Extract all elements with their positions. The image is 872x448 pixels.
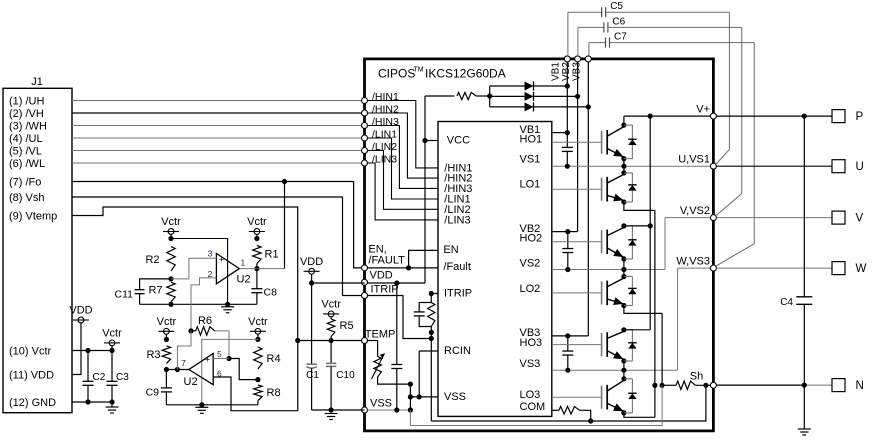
terminal P xyxy=(832,110,845,123)
node rail A xyxy=(168,236,173,241)
ground U2b xyxy=(195,407,208,413)
svg-text:Vctr: Vctr xyxy=(161,216,181,228)
module CIPOS IKCS12G60DA outline xyxy=(365,59,714,431)
diode antiparallel of Q3 HO2 xyxy=(624,226,633,259)
svg-text:W: W xyxy=(856,263,867,275)
wire VDD bypass cap top lead xyxy=(396,283,398,365)
wire U2b output xyxy=(166,369,189,371)
node gnd rail tap U2b xyxy=(199,402,204,407)
capacitor bootstrap C3 internal xyxy=(562,351,573,355)
transistor Q5 HO3 (IGBT) xyxy=(602,330,624,361)
node shunt kelvin xyxy=(703,383,708,388)
wire C6 right drop xyxy=(741,27,743,193)
svg-text:U2: U2 xyxy=(184,376,198,388)
wire C6 diagonal xyxy=(716,194,742,216)
node Q6 LO3 collector xyxy=(621,376,626,381)
svg-text:Vctr: Vctr xyxy=(321,298,341,310)
wire J1 GND row xyxy=(72,401,112,403)
svg-text:LO3: LO3 xyxy=(520,389,541,401)
wire U2a supply drop xyxy=(171,239,228,305)
node EN branch xyxy=(406,265,411,270)
svg-text:HO1: HO1 xyxy=(520,134,543,146)
wire ground rail U2b xyxy=(166,404,258,406)
svg-text:/HIN2: /HIN2 xyxy=(372,104,399,116)
svg-text:R8: R8 xyxy=(267,387,281,399)
svg-text:VDD: VDD xyxy=(69,305,92,317)
wire Q5 emitter to VS3 row xyxy=(623,361,625,370)
wire diode D2 cathode to VB2 line xyxy=(534,95,578,97)
svg-text:(5) /VL: (5) /VL xyxy=(9,145,42,157)
wire HO3 to gate xyxy=(552,344,602,346)
transistor Q4 LO2 (IGBT) xyxy=(602,277,624,306)
node R6 left xyxy=(188,328,193,333)
svg-text:(2) /VH: (2) /VH xyxy=(9,108,44,120)
node /Fo branch xyxy=(282,179,287,184)
module pin /LIN3 xyxy=(362,160,368,166)
node VB3 diode junction xyxy=(586,104,591,109)
wire EN branch xyxy=(409,250,438,268)
wire pin5 row xyxy=(213,358,229,360)
wire J1 Vctr row xyxy=(72,350,112,352)
gate-driver IC box xyxy=(438,122,552,417)
wire J1 VDD xyxy=(72,323,81,375)
svg-text:/Fault: /Fault xyxy=(443,261,471,273)
wire C7 right drop xyxy=(753,43,755,244)
wire HO1 to gate xyxy=(552,141,602,143)
svg-text:(6) /WL: (6) /WL xyxy=(9,158,45,170)
capacitor C11 (parallel R7) xyxy=(140,279,171,290)
wire /WL J1 to module xyxy=(72,162,362,164)
wire /HIN2 to IC xyxy=(368,113,439,178)
svg-text:R1: R1 xyxy=(265,249,279,261)
wire VCC down to VDD xyxy=(424,141,426,284)
wire VSS tie vertical xyxy=(409,384,411,410)
svg-text:J1: J1 xyxy=(31,76,43,88)
resistor R4 xyxy=(254,347,262,369)
node R2/R7 xyxy=(168,276,173,281)
wire diode D3 cathode to VB3 line xyxy=(534,106,589,108)
svg-text:C10: C10 xyxy=(336,370,355,381)
node ITRIP RC bottom tie xyxy=(429,336,434,341)
wire Q1 emitter to VS1 row xyxy=(623,159,625,167)
module pin /HIN2 xyxy=(362,110,368,116)
wire to ground xyxy=(111,402,113,407)
wire HO2 to gate xyxy=(552,241,602,243)
wire bootstrap cap C1 bottom lead xyxy=(566,151,568,166)
svg-text:(3) /WH: (3) /WH xyxy=(9,120,47,132)
svg-text:/FAULT: /FAULT xyxy=(368,255,405,267)
wire R8 bottom xyxy=(257,401,259,405)
svg-text:HO3: HO3 xyxy=(520,337,543,349)
wire IC VSS row xyxy=(410,396,438,398)
node R4/R8 xyxy=(255,377,260,382)
node Q6 LO3 emitter xyxy=(621,410,626,415)
wire ITRIP cap top xyxy=(419,303,431,312)
wire VS3 to Q6 collector xyxy=(623,370,625,379)
svg-text:N: N xyxy=(856,380,864,392)
resistor bootstrap feed xyxy=(457,92,476,99)
node pin5 xyxy=(226,356,231,361)
module pin VB1 top xyxy=(564,56,570,62)
wire VS3 row xyxy=(552,369,678,371)
svg-text:(1) /UH: (1) /UH xyxy=(9,95,45,107)
wire C5 right drop xyxy=(728,12,730,149)
node VDD ext xyxy=(309,280,314,285)
op-amp U2b triangle (points left) xyxy=(189,354,213,385)
capacitor C1 xyxy=(311,283,313,364)
wire /VL J1 to module xyxy=(72,150,362,152)
wire VB1 column xyxy=(566,62,568,133)
wire bootstrap cap C2 bottom lead xyxy=(567,253,569,270)
capacitor C5 xyxy=(568,11,602,13)
svg-text:HO2: HO2 xyxy=(520,233,543,245)
svg-text:C9: C9 xyxy=(146,387,160,399)
wire R6 right to pin5 xyxy=(215,331,229,359)
wire pin2 to R6 node xyxy=(191,278,216,331)
svg-text:(8) Vsh: (8) Vsh xyxy=(9,192,44,204)
node VCC junction xyxy=(422,138,427,143)
wire Vctr stem xyxy=(111,346,113,351)
node Q3 HO2 collector xyxy=(621,223,626,228)
wire shunt to module pin xyxy=(695,384,713,386)
node N bus xyxy=(802,383,807,388)
wire Q3 collector to V+ bus xyxy=(624,225,650,227)
svg-text:VB2: VB2 xyxy=(561,62,572,81)
svg-text:Vctr: Vctr xyxy=(157,316,177,328)
wire V+ rail xyxy=(624,115,714,117)
wire /UH J1 to module xyxy=(72,100,362,102)
svg-text:/LIN1: /LIN1 xyxy=(372,129,397,141)
supply Vctr symbol U2a left xyxy=(161,216,181,234)
wire pin5 to R4/R8 node xyxy=(229,359,258,380)
node V+ bus phase2 xyxy=(648,223,653,228)
node C3 top xyxy=(109,348,114,353)
wire bootstrap cap C2 top lead xyxy=(567,232,569,248)
wire gnd row to VSS pin xyxy=(331,409,364,411)
svg-text:/LIN2: /LIN2 xyxy=(372,141,397,153)
ground U2a xyxy=(221,307,234,313)
supply Vctr symbol (R5) xyxy=(321,298,341,316)
node U,VS1 midpoint xyxy=(621,164,626,169)
wire Vsh to ITRIP xyxy=(72,197,362,296)
svg-text:EN: EN xyxy=(443,244,458,256)
capacitor C10 xyxy=(330,341,332,364)
node Q2 LO1 emitter xyxy=(621,199,626,204)
module pin EN,/FAULT xyxy=(362,265,368,271)
node shunt left A xyxy=(652,383,657,388)
wire /HIN1 to IC xyxy=(368,101,439,168)
module pin /HIN1 xyxy=(362,98,368,104)
svg-text:P: P xyxy=(856,111,864,123)
node R7 bottom xyxy=(168,302,173,307)
module pin W,VS3 xyxy=(710,265,716,271)
node rail D xyxy=(255,337,260,342)
node thermistor tie xyxy=(408,382,413,387)
wire VCC pin xyxy=(425,140,438,142)
wire LO1 to gate xyxy=(552,188,602,190)
svg-text:7: 7 xyxy=(181,358,186,368)
svg-text:U,VS1: U,VS1 xyxy=(678,153,710,165)
node V+ bus top xyxy=(648,114,653,119)
wire VB2 IC pin xyxy=(552,231,568,233)
svg-text:/HIN1: /HIN1 xyxy=(372,91,399,103)
node diode bus xyxy=(487,93,492,98)
svg-text:Vctr: Vctr xyxy=(247,216,267,228)
resistor R3 xyxy=(162,346,170,364)
svg-text:TEMP: TEMP xyxy=(365,328,396,340)
wire Vctr stem xyxy=(170,234,172,238)
supply Vctr symbol U2b left xyxy=(157,316,177,334)
svg-text:VDD: VDD xyxy=(300,256,323,268)
wire V,VS2 row xyxy=(665,217,713,219)
wire LO2 to gate xyxy=(552,292,602,294)
wire resistor to diode bus xyxy=(476,95,490,97)
svg-text:C7: C7 xyxy=(614,32,627,43)
wire diode bus vertical xyxy=(489,86,491,107)
svg-text:W,VS3: W,VS3 xyxy=(676,255,710,267)
svg-text:VB1: VB1 xyxy=(550,62,561,81)
wire /LIN2 to IC xyxy=(368,151,439,210)
svg-text:C8: C8 xyxy=(264,287,278,299)
module pin ITRIP xyxy=(362,293,368,299)
svg-text:VSS: VSS xyxy=(444,391,466,403)
module pin TEMP xyxy=(362,338,368,344)
resistor R8 xyxy=(254,385,262,401)
diode D2 bootstrap xyxy=(525,92,534,101)
wire Vtemp xyxy=(72,207,298,341)
wire VB2 column xyxy=(577,62,579,232)
wire VS2 row xyxy=(552,269,665,271)
terminal U xyxy=(832,160,845,173)
wire TEMP to thermistor xyxy=(368,341,378,357)
wire C5 diagonal xyxy=(716,149,729,164)
wire /VH J1 to module xyxy=(72,112,362,114)
thermistor internal xyxy=(374,357,382,377)
supply Vctr symbol J1 xyxy=(102,327,122,345)
node VS3 cap junction xyxy=(565,368,570,373)
svg-text:VB3: VB3 xyxy=(571,62,582,81)
wire W,VS3 to W xyxy=(716,267,832,269)
wire pin3 to R2/R7 node xyxy=(171,258,216,279)
svg-text:COM: COM xyxy=(520,401,546,413)
node R3/C9/out xyxy=(164,367,169,372)
wire VS3 sense riser xyxy=(677,268,679,370)
wire Vctr stem xyxy=(165,334,167,339)
svg-text:C4: C4 xyxy=(780,297,793,308)
svg-text:VCC: VCC xyxy=(447,134,470,146)
diode antiparallel of Q4 LO2 xyxy=(624,277,633,306)
capacitor C3 xyxy=(111,351,113,382)
transistor Q3 HO2 (IGBT) xyxy=(602,226,624,259)
wire VS1 to Q2 collector xyxy=(623,166,625,173)
resistor COM internal xyxy=(559,407,580,415)
ground C1/C10 xyxy=(325,414,338,420)
node output/R1/C8 xyxy=(254,266,259,271)
wire to shunt xyxy=(662,384,676,386)
node C10 ground xyxy=(329,407,334,412)
node RCIN VSS tie xyxy=(417,394,422,399)
wire ITRIP ext to RC bottom xyxy=(368,296,432,339)
node VS1 cap junction xyxy=(565,164,570,169)
wire Q3 emitter to VS2 row xyxy=(623,259,625,270)
module pin U,VS1 xyxy=(710,163,716,169)
wire /WH J1 to module xyxy=(72,125,362,127)
wire VS2 to Q4 collector xyxy=(623,270,625,277)
svg-text:+: + xyxy=(205,354,210,364)
wire bootstrap cap C3 top lead xyxy=(567,336,569,351)
wire U-phase emitter bus xyxy=(654,210,656,417)
wire C7 to VB pin xyxy=(588,43,590,56)
wire VDD row xyxy=(368,282,426,284)
wire VB3 IC pin xyxy=(552,335,568,337)
wire bootstrap cap C1 top lead xyxy=(566,133,568,147)
wire C7 diagonal xyxy=(716,244,754,266)
wire VDD stem xyxy=(311,274,313,283)
wire V,VS2 to V xyxy=(716,217,832,219)
svg-text:VS2: VS2 xyxy=(520,258,541,270)
wire W,VS3 row xyxy=(678,267,714,269)
node Q5 HO3 collector xyxy=(621,327,626,332)
node VB1 diode junction xyxy=(565,83,570,88)
svg-text:1: 1 xyxy=(241,257,246,267)
capacitor bootstrap C1 internal xyxy=(562,147,573,151)
diode antiparallel of Q1 HO1 xyxy=(624,125,633,159)
module pin V+ xyxy=(710,113,716,119)
wire RC bottom to kelvin rail xyxy=(430,327,432,422)
capacitor ITRIP filter internal xyxy=(414,312,425,316)
node Q1 HO1 collector xyxy=(621,123,626,128)
node Q5 HO3 emitter xyxy=(621,358,626,363)
supply VDD symbol xyxy=(300,256,323,274)
resistor ITRIP filter internal xyxy=(428,303,435,327)
svg-text:(11) VDD: (11) VDD xyxy=(9,369,54,381)
wire /LIN3 to IC xyxy=(368,163,439,220)
wire R5 to TEMP xyxy=(330,337,332,341)
wire VB3 column xyxy=(587,62,589,336)
node C3 bottom xyxy=(109,399,114,404)
svg-text:U2: U2 xyxy=(237,273,251,285)
resistor Sh shunt xyxy=(676,381,695,389)
diode D3 bootstrap xyxy=(525,102,534,111)
terminal N xyxy=(832,379,845,392)
wire VDD ext row xyxy=(312,282,365,284)
svg-text:(9) Vtemp: (9) Vtemp xyxy=(9,210,57,222)
node Q1 HO1 emitter xyxy=(621,156,626,161)
module pin VDD xyxy=(362,279,368,285)
svg-text:V,VS2: V,VS2 xyxy=(680,205,710,217)
svg-text:R7: R7 xyxy=(148,285,162,297)
node VSS B xyxy=(408,407,413,412)
wire IC ITRIP pin xyxy=(431,293,438,295)
svg-text:VDD: VDD xyxy=(370,270,393,282)
ground N bus xyxy=(803,385,805,429)
node VDD bypass xyxy=(394,280,399,285)
svg-text:/LIN3: /LIN3 xyxy=(444,215,470,227)
supply VDD symbol J1 xyxy=(69,305,92,323)
resistor R6 xyxy=(196,327,215,335)
module pin VB3 top xyxy=(585,56,591,62)
wire U2b supply drop xyxy=(202,339,258,404)
wire /Fo branch to comparator output xyxy=(284,182,286,269)
node Q3 HO2 emitter xyxy=(621,256,626,261)
node VSS A xyxy=(408,394,413,399)
node Q4 LO2 collector xyxy=(621,274,626,279)
wire RCIN pin xyxy=(419,350,438,352)
node V,VS2 midpoint xyxy=(621,267,626,272)
svg-text:(4) /UL: (4) /UL xyxy=(9,133,43,145)
wire VS1 row (U,VS1) xyxy=(552,165,714,167)
wire shunt-left to VSS gray return xyxy=(410,385,662,425)
svg-text:ITRIP: ITRIP xyxy=(444,287,472,299)
node COM junction xyxy=(588,418,593,423)
module pin V,VS2 xyxy=(710,215,716,221)
op-amp U2a triangle xyxy=(216,253,239,283)
supply Vctr symbol U2b right xyxy=(248,316,268,334)
wire VS2 sense riser xyxy=(664,218,666,270)
node W,VS3 midpoint xyxy=(621,368,626,373)
svg-text:V+: V+ xyxy=(696,103,710,115)
wire Q5 collector to V+ bus xyxy=(624,329,650,331)
capacitor C9 xyxy=(165,370,167,388)
svg-text:LO2: LO2 xyxy=(520,283,541,295)
wire /LIN1 to IC xyxy=(368,138,439,199)
resistor R1 xyxy=(253,246,261,264)
thermistor arrow xyxy=(372,354,385,380)
svg-text:(10) Vctr: (10) Vctr xyxy=(9,345,52,357)
wire /UL J1 to module xyxy=(72,137,362,139)
svg-text:TM: TM xyxy=(414,66,424,73)
terminal V xyxy=(832,211,845,224)
wire /Fo xyxy=(72,182,362,268)
wire VB3 to IC row xyxy=(568,335,589,337)
node VB2 xyxy=(565,229,570,234)
svg-text:C11: C11 xyxy=(115,289,134,301)
wire VCC up to bootstrap feed xyxy=(424,96,426,141)
capacitor C7 xyxy=(589,42,606,44)
wire C5 to VB pin xyxy=(567,12,569,56)
node TEMP R5/C10 xyxy=(329,338,334,343)
svg-text:C1: C1 xyxy=(306,370,319,381)
ground J1 xyxy=(106,407,119,413)
module pin VB2 top xyxy=(575,56,581,62)
wire ground rail U2a xyxy=(171,303,257,305)
capacitor C2 xyxy=(87,351,89,382)
wire kelvin VSS return xyxy=(431,385,706,421)
node VSS bypass tie xyxy=(394,407,399,412)
wire LO3 to gate xyxy=(552,396,602,398)
resistor R5 xyxy=(327,319,335,337)
supply Vctr symbol U2a right xyxy=(247,216,267,234)
node shunt left B xyxy=(660,383,665,388)
capacitor C6 xyxy=(578,26,604,28)
wire to bootstrap diode D2 xyxy=(490,95,525,97)
transistor Q2 LO1 (IGBT) xyxy=(602,173,624,202)
svg-text:VS3: VS3 xyxy=(520,358,541,370)
wire VB1 IC pin xyxy=(552,132,568,134)
svg-text:C3: C3 xyxy=(116,372,129,383)
wire V+ to P xyxy=(716,115,832,117)
svg-text:/LIN3: /LIN3 xyxy=(372,154,397,166)
capacitor C4 xyxy=(803,116,805,297)
svg-text:C2: C2 xyxy=(93,372,106,383)
diode D1 bootstrap xyxy=(525,82,534,91)
wire to bootstrap diode D3 xyxy=(490,106,525,108)
wire TEMP ext row xyxy=(298,340,362,342)
svg-text:3: 3 xyxy=(208,249,213,259)
node Q4 LO2 emitter xyxy=(621,303,626,308)
wire VDD bypass cap bottom lead xyxy=(396,369,398,411)
wire V+ bus vertical xyxy=(649,116,651,330)
